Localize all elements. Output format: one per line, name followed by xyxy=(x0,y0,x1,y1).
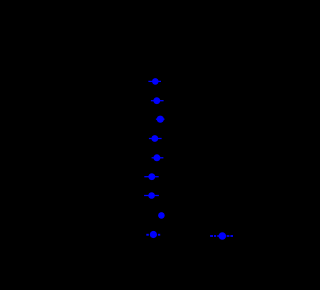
errorbar row 2 xyxy=(151,100,164,101)
errorbar row 5 xyxy=(152,157,164,158)
marker row 8 xyxy=(158,212,165,219)
errorbar row 4 xyxy=(149,138,162,139)
dashed errorbar row 9 xyxy=(146,234,149,236)
errorbar row 3 xyxy=(156,119,165,120)
errorbar row 7 xyxy=(144,195,159,196)
dashed errorbar row 9b (offset point) xyxy=(210,235,213,237)
errorbar row 6 xyxy=(144,176,158,177)
errorbar row 1 xyxy=(148,81,161,82)
